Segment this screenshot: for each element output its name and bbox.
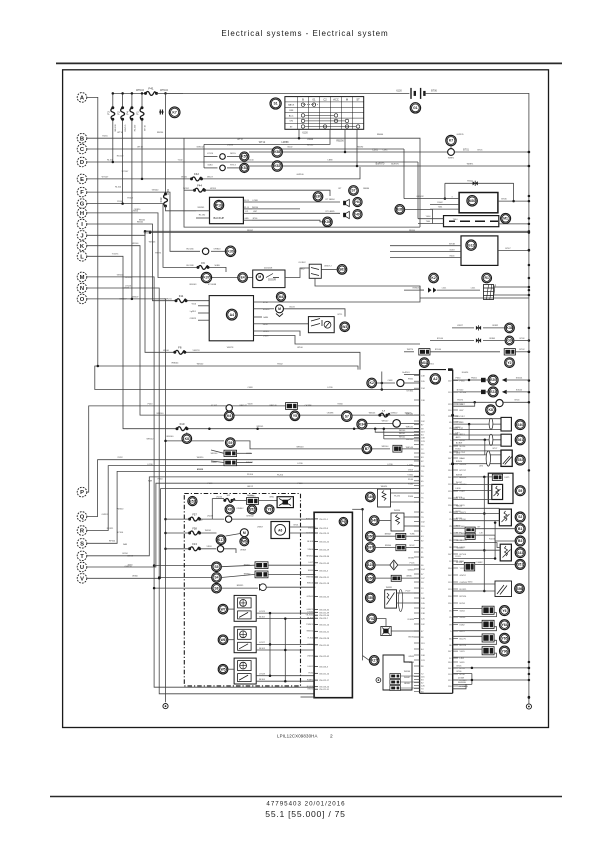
node O <box>77 294 87 304</box>
svg-text:DOOR: DOOR <box>268 278 276 282</box>
junction <box>97 365 100 368</box>
svg-text:L967: L967 <box>253 211 257 213</box>
svg-text:B074: B074 <box>460 631 466 633</box>
wire A4 lh pin <box>198 305 209 307</box>
junction <box>164 518 167 521</box>
latch switch contacts <box>311 268 319 276</box>
sensor B3 <box>515 536 525 546</box>
node K <box>77 241 87 251</box>
svg-text:A23: A23 <box>367 563 373 567</box>
switch S98 contacts <box>497 585 507 595</box>
svg-text:M: M <box>80 275 85 281</box>
svg-text:LR824: LR824 <box>307 644 314 646</box>
svg-text:P6061: P6061 <box>471 377 478 379</box>
valve connector Y6 <box>482 606 494 614</box>
wire to switch S5 <box>154 565 212 567</box>
wire <box>227 156 239 158</box>
svg-text:VM178: VM178 <box>227 347 234 349</box>
wire <box>483 340 505 342</box>
svg-text:K7: K7 <box>449 139 453 143</box>
alternator dashes <box>449 220 498 222</box>
svg-text:K34: K34 <box>359 422 365 426</box>
wire backup to H4 <box>252 201 340 203</box>
fuse F57 <box>188 517 201 521</box>
front wiper unit motor frame <box>238 598 252 608</box>
fuse F44 <box>193 188 206 192</box>
svg-text:Y82/2: Y82/2 <box>197 520 203 522</box>
svg-text:G: G <box>80 202 85 208</box>
fuse S8a <box>378 413 390 417</box>
svg-text:Y64: Y64 <box>501 623 507 627</box>
lower wiper unit switch frame <box>238 674 252 682</box>
svg-text:F9: F9 <box>201 261 205 265</box>
svg-text:W6: W6 <box>220 638 225 642</box>
svg-text:L7088: L7088 <box>252 200 257 202</box>
junction <box>356 165 359 168</box>
wire to bus <box>503 401 529 403</box>
svg-text:WT10: WT10 <box>137 146 143 148</box>
wire branch row 439 <box>384 438 420 440</box>
svg-text:CN.022-46: CN.022-46 <box>319 615 330 617</box>
svg-text:F3: F3 <box>107 111 111 115</box>
svg-text:RL100: RL100 <box>115 187 122 189</box>
svg-text:WR143: WR143 <box>406 447 414 449</box>
wire fuse F4 top <box>131 93 133 107</box>
wire to Y64 <box>453 622 482 624</box>
svg-text:6130: 6130 <box>396 89 402 92</box>
wire F57 row <box>200 518 224 520</box>
svg-text:S7: S7 <box>351 189 355 193</box>
svg-text:B-Y043: B-Y043 <box>306 532 314 534</box>
wire A4 rh pin <box>254 335 263 337</box>
alternator M1 <box>501 213 511 223</box>
connector P9 <box>339 517 347 525</box>
wire F13 feed <box>166 548 190 550</box>
flasher connector left <box>419 349 430 355</box>
node T <box>77 551 87 561</box>
svg-text:RP324: RP324 <box>460 596 467 598</box>
wire E36 to alternator <box>405 209 433 218</box>
wiper W6 <box>218 635 228 645</box>
svg-text:R? 8088: R? 8088 <box>208 284 217 286</box>
junction <box>284 617 287 620</box>
svg-text:W8166: W8166 <box>404 671 411 673</box>
solenoid valve Y96 <box>500 646 510 656</box>
svg-text:RO321: RO321 <box>107 528 114 530</box>
junction <box>361 508 364 511</box>
svg-text:K52: K52 <box>274 164 280 168</box>
junction <box>158 576 161 579</box>
svg-text:F1: F1 <box>136 111 140 115</box>
wire fuse F1 top <box>141 93 143 107</box>
svg-text:55.1 [55.000] / 75: 55.1 [55.000] / 75 <box>265 809 345 819</box>
wire glow plug loop <box>445 182 514 184</box>
svg-text:CN.023-36: CN.023-36 <box>319 556 330 558</box>
svg-text:BW307: BW307 <box>120 298 128 300</box>
battery G1 symbol <box>411 88 424 99</box>
wire G12 pin <box>390 245 461 247</box>
wire K37 to E4 <box>212 277 238 279</box>
wire node P up to row 406 <box>87 406 420 492</box>
ignition switch table frame <box>285 97 364 130</box>
svg-text:BT237: BT237 <box>460 470 467 472</box>
wire <box>232 499 247 501</box>
svg-text:WR146: WR146 <box>132 243 140 245</box>
wire node F row down to K30 <box>87 192 200 251</box>
switch box top right <box>277 497 293 508</box>
svg-text:RG02: RG02 <box>467 180 473 182</box>
wire loop right down <box>513 183 515 201</box>
svg-text:CN.023-28: CN.023-28 <box>319 638 330 640</box>
wire E row to relay block <box>203 167 360 179</box>
wire link S61-S52 <box>484 440 486 455</box>
wire <box>404 382 420 384</box>
wire A4 rh pin <box>254 301 263 303</box>
svg-text:F58: F58 <box>192 526 197 530</box>
wire node K row to K6 <box>87 246 224 415</box>
wire branch row 432 <box>375 429 419 433</box>
wire row 374 <box>404 374 420 376</box>
wire alternator to bus <box>499 223 529 225</box>
speaker right <box>343 211 349 218</box>
svg-text:S98: S98 <box>516 587 522 591</box>
wire <box>486 379 488 381</box>
wire latch down to right area <box>315 278 424 290</box>
junction <box>528 679 531 682</box>
wire <box>400 448 420 450</box>
starter motor M30 <box>467 196 477 206</box>
svg-text:LR807: LR807 <box>257 527 264 529</box>
switch S40 <box>515 420 525 430</box>
svg-text:CN.023-32: CN.023-32 <box>319 609 330 611</box>
svg-text:BY134: BY134 <box>456 518 463 520</box>
connector square E23 <box>481 390 486 394</box>
wire <box>227 167 239 169</box>
junction <box>153 587 156 590</box>
svg-text:BT106: BT106 <box>456 497 463 499</box>
valve Y5 <box>290 411 300 421</box>
relay K52 <box>240 163 249 172</box>
svg-text:J: J <box>80 233 83 239</box>
svg-text:WB240: WB240 <box>144 233 152 235</box>
svg-text:WH100: WH100 <box>115 124 117 132</box>
svg-text:RL192: RL192 <box>199 214 206 216</box>
svg-text:K8: K8 <box>185 437 189 441</box>
svg-text:YR275: YR275 <box>155 253 162 255</box>
svg-text:GrR210: GrR210 <box>164 297 172 300</box>
node R <box>77 526 87 536</box>
svg-text:W836: W836 <box>406 576 412 578</box>
sender S49 <box>366 492 376 502</box>
svg-text:S56: S56 <box>367 576 373 580</box>
heater unit box A6 <box>271 522 290 539</box>
svg-text:M1: M1 <box>503 217 508 221</box>
svg-text:W107: W107 <box>207 177 213 179</box>
ground inside K27 housing <box>376 678 381 683</box>
wire to S52 pin2 <box>453 454 501 456</box>
svg-text:P10: P10 <box>216 203 222 207</box>
svg-text:SY350: SY350 <box>460 392 467 394</box>
junction on right bus <box>528 379 531 382</box>
svg-text:BY84: BY84 <box>460 603 466 605</box>
washer pump symbol <box>324 321 331 328</box>
svg-text:WT10: WT10 <box>117 132 123 134</box>
wire from node A down to row 389 <box>87 97 420 389</box>
svg-text:Y01/0: Y01/0 <box>455 511 461 513</box>
svg-text:WH102: WH102 <box>160 89 169 92</box>
wire vertical to fuse F43 <box>165 93 167 194</box>
svg-text:W5: W5 <box>220 667 225 671</box>
wire to S40 pin2 <box>453 423 501 425</box>
speaker left <box>343 199 349 206</box>
wire table ACC column down <box>250 129 330 144</box>
svg-text:S7: S7 <box>345 414 349 418</box>
front wiper unit motor <box>240 600 247 607</box>
wire BG368H row <box>453 683 472 685</box>
switch box S40 <box>501 417 511 431</box>
svg-text:Y96: Y96 <box>501 649 507 653</box>
wire to S2 pin2 <box>453 513 500 515</box>
svg-text:WR147: WR147 <box>382 421 390 423</box>
junction <box>528 151 531 154</box>
wire to S2 pin1 <box>453 507 500 509</box>
svg-text:W3: W3 <box>342 325 347 329</box>
svg-text:WT107: WT107 <box>122 171 130 173</box>
wire S49 to A2 <box>391 492 420 494</box>
svg-text:W8kt: W8kt <box>269 495 274 498</box>
front wiper unit switch frame <box>238 611 252 619</box>
junction <box>256 427 259 430</box>
S43 resistor arrow <box>503 546 511 558</box>
svg-text:BG/82: BG/82 <box>408 637 415 639</box>
svg-text:RB506: RB506 <box>307 582 314 584</box>
junction <box>269 643 272 646</box>
wire <box>375 547 396 549</box>
component E36 <box>395 205 405 215</box>
svg-text:TW8C1: TW8C1 <box>306 624 314 626</box>
connector below S9 a <box>224 450 237 456</box>
switch S9 <box>226 438 236 448</box>
schematic border frame <box>63 70 549 728</box>
switch S61 <box>515 435 525 445</box>
svg-text:T: T <box>80 554 84 560</box>
wire E4 to door switch <box>248 277 253 279</box>
wire W6 stub <box>228 639 234 641</box>
svg-text:M11S: M11S <box>230 153 236 155</box>
svg-text:P040: P040 <box>158 479 164 481</box>
svg-text:6130: 6130 <box>302 132 308 135</box>
svg-text:S034: S034 <box>128 564 134 566</box>
lamp E23 <box>488 387 498 397</box>
svg-text:BR/88: BR/88 <box>404 683 410 685</box>
svg-text:W8101: W8101 <box>205 530 212 532</box>
svg-text:GW322: GW322 <box>391 413 399 415</box>
junction <box>528 351 531 354</box>
relay K38 <box>505 323 515 333</box>
svg-text:YE-W30: YE-W30 <box>306 615 314 617</box>
wire node O down to ground <box>87 299 166 702</box>
wire to bus <box>514 340 529 342</box>
svg-text:OR820: OR820 <box>214 249 222 251</box>
relay K34 <box>357 419 367 429</box>
svg-text:W8320: W8320 <box>197 457 204 459</box>
svg-text:B/W042: B/W042 <box>246 516 254 518</box>
wire node V up to row 489 <box>87 489 420 579</box>
wire starter pin3 <box>430 208 459 210</box>
wire <box>228 410 230 413</box>
wire to S40 pin1 <box>453 418 501 420</box>
svg-text:S43: S43 <box>517 551 523 555</box>
switch box S43 <box>500 544 511 561</box>
wire row 298 <box>420 297 529 299</box>
header rule <box>56 62 562 64</box>
wire node J long row <box>150 232 529 234</box>
svg-text:D: D <box>80 160 84 166</box>
svg-text:K2: K2 <box>431 276 435 280</box>
svg-text:W8190: W8190 <box>247 495 254 497</box>
wire K7b down <box>450 146 452 149</box>
buzzer B7 <box>362 444 372 454</box>
svg-text:C2: C2 <box>323 97 327 101</box>
seal ellipse S55 <box>398 590 402 612</box>
relay K8 <box>182 434 192 444</box>
svg-text:Y8102: Y8102 <box>127 198 134 200</box>
wire top row <box>212 498 224 500</box>
wire starter to bus <box>498 200 529 202</box>
contact under K7b <box>448 149 455 156</box>
connector P9 body <box>314 512 352 697</box>
wire A6 to P9 b <box>290 532 316 534</box>
svg-text:W8770: W8770 <box>407 349 414 351</box>
node M <box>77 272 87 282</box>
svg-text:L/E30: L/E30 <box>455 488 461 490</box>
junction <box>483 512 486 515</box>
svg-text:W060: W060 <box>132 576 138 578</box>
wire wiper link vertical a <box>269 613 271 676</box>
wire backup to H9 <box>252 212 340 214</box>
svg-text:C097: C097 <box>460 491 466 493</box>
relay K17 <box>216 535 226 545</box>
relay K7 <box>169 107 180 118</box>
switch S52c <box>515 455 525 465</box>
junction <box>164 440 167 443</box>
svg-text:K8: K8 <box>228 508 232 512</box>
wiper W7 <box>218 604 228 614</box>
fuse F58 <box>188 531 201 535</box>
junction <box>121 202 124 205</box>
wire fuse F3 top <box>112 93 114 107</box>
lamp E52 <box>188 497 197 506</box>
svg-text:K7: K7 <box>172 111 176 115</box>
svg-text:GW520: GW520 <box>457 548 465 550</box>
wire to Y96 <box>453 648 482 650</box>
svg-text:L/E1: L/E1 <box>460 658 465 660</box>
svg-text:YR271: YR271 <box>457 404 464 406</box>
wire K52b to table drop <box>282 165 357 167</box>
svg-text:A6: A6 <box>278 529 282 533</box>
junction on right bus <box>528 661 531 664</box>
buzzer symbol <box>260 584 267 591</box>
switch S55 contact <box>387 593 395 605</box>
svg-text:ON: ON <box>290 121 294 123</box>
junction <box>344 151 347 154</box>
junction <box>298 137 301 140</box>
wire wiper pin BL302 <box>256 618 314 620</box>
wire to S51 <box>453 563 465 565</box>
svg-text:BuR901: BuR901 <box>402 372 410 374</box>
svg-text:GrRN12: GrRN12 <box>416 196 424 198</box>
wire into connector a <box>211 450 224 453</box>
svg-text:MR201: MR201 <box>307 556 314 558</box>
svg-text:M: M <box>243 531 246 535</box>
junction <box>528 223 531 226</box>
svg-text:W8320: W8320 <box>117 508 124 510</box>
svg-text:BT06: BT06 <box>460 674 466 676</box>
wire fuse F1 bottom to E row <box>141 119 143 179</box>
junction on right bus <box>528 339 531 342</box>
svg-text:G9: G9 <box>507 339 512 343</box>
junction <box>471 667 474 670</box>
wire to sender 2 <box>453 489 492 491</box>
rail pin separator a <box>451 414 454 416</box>
wire backup mid pin <box>252 208 300 210</box>
wire F44 left <box>184 189 195 191</box>
wire <box>483 327 504 329</box>
svg-text:BT01: BT01 <box>463 148 469 151</box>
fuse F41 <box>144 91 158 95</box>
flasher connector right <box>504 349 515 355</box>
wire right local bus <box>483 477 485 591</box>
svg-text:B1: B1 <box>518 527 522 531</box>
svg-text:0084: 0084 <box>208 165 214 167</box>
svg-text:BT06: BT06 <box>431 89 437 92</box>
wire DO369 row <box>453 679 529 681</box>
svg-text:P040: P040 <box>408 484 414 486</box>
svg-text:P660: P660 <box>408 379 414 381</box>
switch S7 <box>349 186 359 196</box>
svg-text:GN/12: GN/12 <box>460 575 467 577</box>
svg-text:W203: W203 <box>210 188 216 190</box>
wire G12 to bus <box>498 249 529 251</box>
svg-text:V070: V070 <box>460 651 466 653</box>
svg-text:CN.021-14: CN.021-14 <box>319 625 330 627</box>
wire S8 to buzzer <box>221 587 258 589</box>
wire <box>486 391 488 393</box>
svg-text:CN.021-18: CN.021-18 <box>319 583 330 585</box>
sensor S51 <box>515 559 525 569</box>
svg-text:K58: K58 <box>274 150 280 154</box>
svg-text:BACK: BACK <box>288 104 294 107</box>
wire node J long row <box>87 231 529 235</box>
junction <box>528 249 531 252</box>
junction <box>528 401 531 404</box>
wire loop left down <box>444 183 446 198</box>
wire battery positive to right bus <box>425 93 529 704</box>
svg-text:F: F <box>80 190 84 196</box>
svg-text:YR275: YR275 <box>457 400 464 402</box>
svg-text:S: S <box>80 541 84 547</box>
wire top bus to battery <box>166 92 410 94</box>
svg-text:E36: E36 <box>397 208 403 212</box>
svg-text:CN.021-22: CN.021-22 <box>319 542 330 544</box>
svg-text:D0P1: D0P1 <box>504 477 510 479</box>
svg-text:WR140: WR140 <box>399 430 405 432</box>
svg-text:S40: S40 <box>517 423 523 427</box>
wire K2 to A row <box>381 383 383 390</box>
svg-text:Y32: Y32 <box>369 617 375 621</box>
fuse S12 <box>223 498 235 502</box>
svg-text:BY84: BY84 <box>122 553 128 555</box>
